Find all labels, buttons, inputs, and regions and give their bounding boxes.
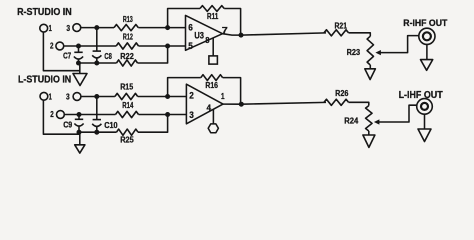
wire wiper to L-IHF jack [379,105,417,122]
svg-text:6: 6 [188,23,193,33]
jack 3 (R input) [73,24,81,32]
svg-text:R23: R23 [347,48,361,57]
junction pin 5 / R22 [165,44,170,49]
jack 2 (L input) [57,111,65,119]
ground symbol G3 [365,69,376,80]
wire jack1 to ground stem [43,32,79,70]
feedback wire right [224,9,240,36]
svg-text:R26: R26 [335,89,349,98]
svg-text:C9: C9 [63,121,73,130]
wiper arrow R24 [374,119,380,124]
svg-text:R12: R12 [123,33,133,42]
ground bus wire [79,131,117,133]
wire R22 riser to pin 5 node [138,46,168,63]
jack 2 (R input) [56,42,64,50]
svg-text:2: 2 [189,91,194,101]
resistor R14 [116,111,139,117]
capacitor C10 [96,97,98,120]
capacitor C7 [78,46,80,52]
op-amp U3B [186,84,223,124]
jack 3 (L input) [73,93,81,101]
svg-text:1: 1 [49,92,52,102]
potentiometer R23 [367,36,373,65]
svg-text:R22: R22 [120,52,134,61]
svg-text:2: 2 [50,109,54,119]
wire jack3 to R13 [81,27,114,29]
resistor R11 [200,6,224,12]
ground stem G1 [79,63,81,74]
wire R25 riser to pin 3 node [138,115,168,133]
svg-text:R16: R16 [205,81,218,90]
jack 1 (R input) [40,24,48,32]
svg-text:R-STUDIO IN: R-STUDIO IN [17,7,72,18]
jack 1 (L input) [40,92,48,100]
power pin 4 stem [212,109,214,123]
svg-text:R21: R21 [335,21,348,30]
power pin 8 stem [212,38,214,56]
svg-text:3: 3 [66,23,70,33]
junction C7 bus [76,61,81,66]
capacitor C8 [96,28,98,51]
svg-text:1: 1 [221,92,225,101]
wire jack3 to R15 [81,96,115,98]
svg-text:4: 4 [207,102,212,112]
resistor R26 [324,99,349,105]
wire R23 to ground [369,65,371,69]
power terminal hexagon [208,124,218,133]
svg-text:5: 5 [188,41,193,51]
svg-text:L-STUDIO IN: L-STUDIO IN [18,75,71,86]
output junction node [239,102,244,107]
power terminal square [209,56,218,64]
resistor R22 [117,60,138,66]
wire R13 to op-amp pin 6 [138,27,185,29]
junction feedback / pin 2 [165,94,170,99]
junction C9 bus [77,130,82,135]
resistor R13 [114,25,138,31]
junction C8 bus [94,61,99,66]
svg-text:2: 2 [50,41,54,51]
ground symbol G5 [363,135,375,147]
feedback wire right [223,78,241,105]
svg-text:R14: R14 [122,101,134,110]
wiper arrow R23 [375,50,381,55]
output jack R-IHF [419,28,435,44]
junction feedback / pin 6 [165,25,170,30]
svg-text:C8: C8 [104,52,112,61]
junction C9 tap [77,112,82,117]
op-amp U3A [186,15,223,50]
svg-text:8: 8 [205,36,210,45]
svg-text:R13: R13 [123,15,133,24]
svg-text:C10: C10 [104,121,118,130]
wire R15 to op-amp pin 2 [138,96,187,98]
wire R12 to op-amp pin 5 [139,45,186,47]
wire R-IHF jack to ground [426,45,428,60]
feedback wire left [168,78,201,97]
potentiometer R24 [366,106,372,131]
svg-text:3: 3 [189,110,194,120]
svg-text:R-IHF OUT: R-IHF OUT [403,17,447,28]
ground symbol G1 [73,74,87,86]
svg-text:C7: C7 [63,51,71,60]
ground symbol G2 [75,145,85,153]
junction C8 tap [94,25,99,30]
resistor R21 [324,30,349,36]
feedback wire left [168,9,200,28]
wire op-amp output to R26 [223,102,326,104]
wire jack2 to R12 [64,45,116,47]
wire wiper to R-IHF jack [380,36,419,53]
wire jack1 to ground stem [43,100,79,134]
wire L-IHF jack to ground [424,114,426,129]
output junction node [239,33,244,38]
capacitor C9 [78,115,80,120]
svg-text:R15: R15 [120,83,134,92]
resistor R12 [116,43,138,49]
svg-text:U3: U3 [194,30,204,40]
svg-text:R25: R25 [120,136,134,145]
junction C10 bus [94,130,99,135]
junction pin 3 / R25 [165,112,170,117]
resistor R25 [117,129,139,135]
wire R21 to R23 [349,33,371,36]
wire R24 to ground [368,131,370,135]
wire jack2 to R14 [64,114,115,116]
wire R26 to R24 [349,102,369,105]
resistor R16 [201,75,223,81]
output jack L-IHF [417,99,433,115]
ground stem G2 [79,132,81,145]
junction C7 tap [76,44,81,49]
wire R14 to op-amp pin 3 [139,114,187,116]
svg-text:R11: R11 [207,12,219,21]
ground bus wire [79,62,117,64]
resistor R15 [115,93,138,99]
svg-text:3: 3 [66,91,70,101]
wire op-amp output to R21 [223,33,327,35]
svg-text:1: 1 [49,23,52,33]
ground symbol G4 [421,60,433,71]
junction C10 tap [94,94,99,99]
ground symbol G6 [418,129,431,142]
svg-text:R24: R24 [344,117,359,126]
